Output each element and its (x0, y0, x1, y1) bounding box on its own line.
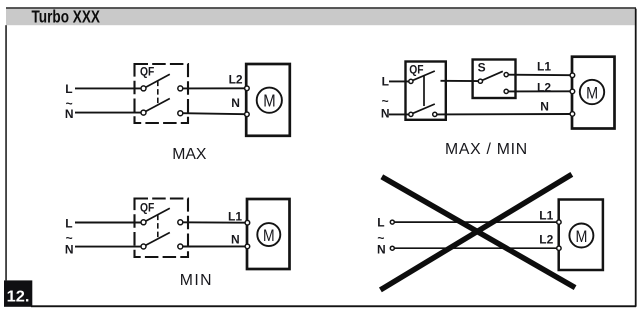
page frame top rule (6, 7, 636, 9)
svg-text:L2: L2 (539, 233, 553, 247)
motor enclosure (diagram 1) (246, 64, 290, 136)
motor terminal L1 pin (diagram 3) (245, 220, 250, 225)
svg-text:N: N (65, 243, 74, 257)
wire L input to QF (diagram 3) (75, 222, 141, 224)
wire N to motor terminal L2 (diagram 4) (394, 247, 556, 249)
circuit breaker QF (diagram 3) dashed enclosure (135, 199, 189, 258)
svg-text:L2: L2 (537, 80, 551, 94)
svg-text:12.: 12. (7, 288, 30, 305)
svg-text:MAX / MIN: MAX / MIN (445, 141, 528, 158)
QF pole 1 right contact (diagram 3) (178, 220, 183, 225)
circuit breaker QF (diagram 2) enclosure (406, 62, 446, 120)
svg-text:L1: L1 (539, 208, 553, 222)
QF pole 1 blade (diagram 2) (413, 71, 435, 80)
QF pole 2 left contact (diagram 1) (141, 110, 146, 115)
motor terminal N pin (diagram 2) (570, 112, 575, 117)
svg-text:N: N (381, 106, 390, 120)
QF pole 2 right contact (diagram 2) (433, 112, 437, 116)
QF pole 1 blade (diagram 1) (146, 74, 170, 87)
svg-text:L: L (377, 216, 384, 230)
svg-text:M: M (263, 91, 275, 111)
svg-text:L: L (65, 82, 72, 96)
motor terminal L2 pin (diagram 4) (557, 246, 561, 250)
title bar (6, 9, 635, 25)
motor terminal L2 pin (diagram 2) (570, 89, 575, 94)
motor M4 symbol (diagram 4) (569, 224, 593, 248)
wire QF to motor terminal L2 (diagram 1) (183, 87, 245, 89)
motor enclosure (diagram 4) (559, 200, 603, 271)
selector switch S (diagram 2) enclosure (473, 60, 516, 99)
motor terminal L1 pin (diagram 2) (570, 73, 575, 78)
svg-text:S: S (478, 60, 486, 74)
wire N input to QF (diagram 2) (389, 113, 409, 115)
step number box 12. (4, 280, 32, 306)
motor terminal L1 pin (diagram 4) (557, 220, 561, 224)
QF pole 2 blade (diagram 2) (413, 104, 435, 113)
motor M2 symbol (diagram 2) (580, 80, 604, 104)
QF pole 2 blade (diagram 3) (146, 233, 170, 246)
svg-text:QF: QF (409, 62, 423, 76)
QF pole 1 blade (diagram 3) (146, 208, 170, 221)
wire QF to switch S (diagram 2) (441, 80, 479, 82)
svg-text:Turbo XXX: Turbo XXX (32, 7, 101, 27)
L input contact (diagram 4) (390, 220, 394, 224)
svg-text:QF: QF (140, 201, 154, 215)
QF pole 2 blade (diagram 1) (146, 99, 170, 112)
wire L input to QF (diagram 1) (75, 87, 141, 89)
QF pole 1 right contact (diagram 1) (178, 86, 183, 91)
QF pole 2 left contact (diagram 3) (141, 244, 146, 249)
QF pole 1 left contact (diagram 1) (141, 86, 146, 91)
svg-text:L: L (65, 216, 72, 230)
page frame left border (5, 25, 7, 280)
svg-text:M: M (263, 227, 275, 245)
svg-text:L2: L2 (229, 72, 243, 86)
S blade (diagram 2) (483, 71, 503, 80)
wire QF to motor terminal N (diagram 1) (183, 113, 245, 114)
page frame right border (635, 9, 637, 307)
wire QF to motor terminal L1 (diagram 3) (183, 221, 246, 223)
svg-text:N: N (540, 100, 549, 114)
wire L input to QF (diagram 2) (389, 80, 409, 82)
svg-text:M: M (586, 83, 598, 102)
svg-text:QF: QF (140, 65, 154, 79)
QF pole 1 left contact (diagram 2) (409, 79, 413, 83)
svg-text:N: N (377, 243, 386, 257)
wire L to motor terminal L1 (diagram 4) (394, 221, 556, 223)
wire N input to QF (diagram 3) (75, 246, 141, 248)
svg-text:N: N (231, 96, 240, 110)
QF mechanical linkage (diagram 3) (157, 215, 159, 239)
motor M1 symbol (diagram 1) (257, 88, 282, 113)
motor M3 symbol (diagram 3) (257, 223, 280, 246)
svg-text:L: L (382, 74, 389, 88)
wire N input to QF (diagram 1) (75, 112, 141, 114)
QF mechanical linkage (diagram 2) (423, 76, 425, 106)
motor enclosure (diagram 2) (572, 57, 615, 129)
prohibition cross stroke backslash (diagram 4) (382, 177, 575, 288)
prohibition cross stroke slash (diagram 4) (380, 174, 571, 290)
S lower throw contact (diagram 2) (504, 89, 508, 93)
QF pole 2 right contact (diagram 3) (178, 244, 183, 249)
circuit breaker QF (diagram 1) dashed enclosure (135, 64, 189, 123)
svg-text:MIN: MIN (180, 272, 213, 289)
page frame bottom border (31, 305, 636, 307)
QF pole 2 right contact (diagram 1) (178, 111, 183, 116)
wire S to motor terminal L1 (diagram 2) (508, 74, 570, 77)
motor enclosure (diagram 3) (247, 199, 290, 269)
svg-text:M: M (576, 227, 588, 246)
QF pole 2 left contact (diagram 2) (409, 112, 413, 116)
N input contact (diagram 4) (390, 246, 394, 250)
motor terminal N pin (diagram 1) (245, 112, 250, 117)
svg-text:N: N (231, 232, 240, 246)
wire QF to motor terminal N (diagram 2) (437, 113, 571, 115)
svg-text:MAX: MAX (172, 146, 207, 163)
wire S to motor terminal L2 (diagram 2) (508, 90, 570, 92)
svg-text:L1: L1 (537, 59, 551, 73)
motor terminal N pin (diagram 3) (245, 244, 250, 249)
svg-text:L1: L1 (228, 209, 242, 223)
motor terminal L2 pin (diagram 1) (245, 86, 250, 91)
wire QF to motor terminal N (diagram 3) (183, 245, 246, 247)
QF pole 1 left contact (diagram 3) (141, 220, 146, 225)
S common contact (diagram 2) (478, 79, 482, 83)
QF mechanical linkage (diagram 1) (157, 81, 159, 105)
svg-text:N: N (65, 107, 74, 121)
S upper throw contact (diagram 2) (504, 73, 508, 77)
